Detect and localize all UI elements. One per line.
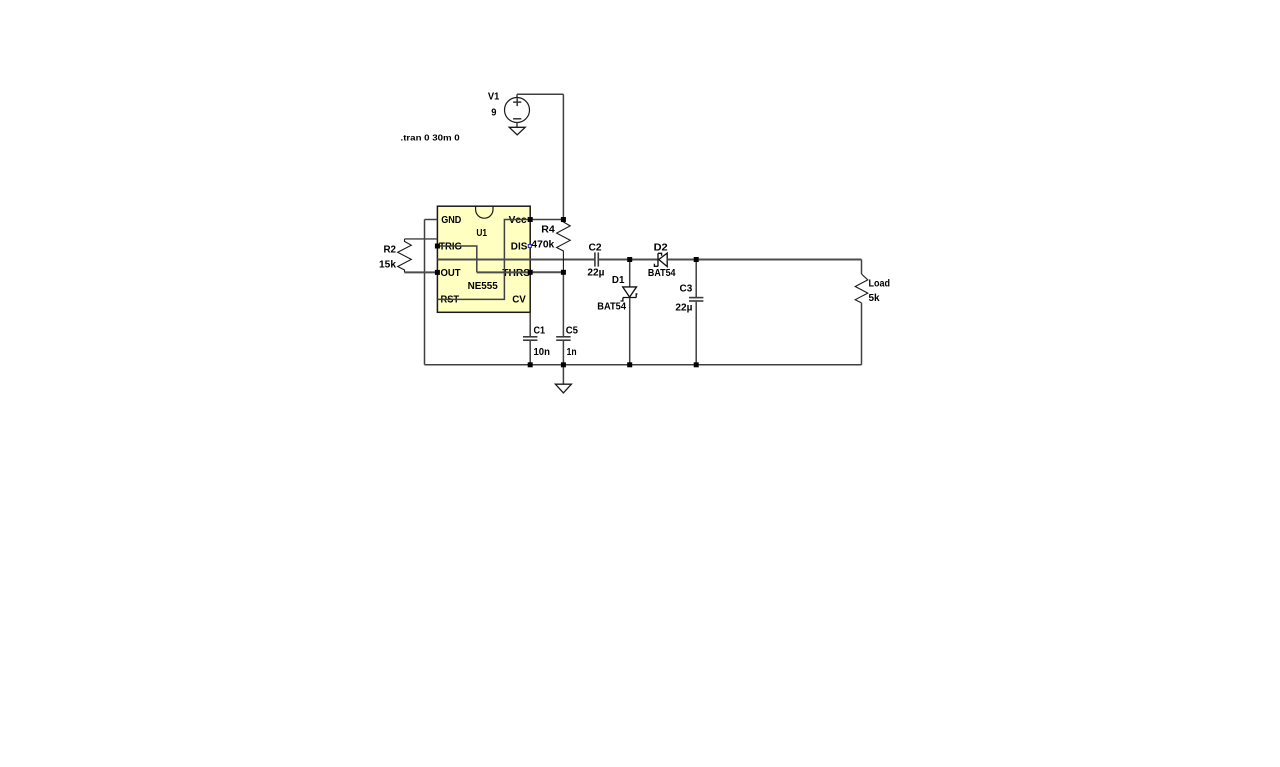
wire bottom ground rail <box>425 364 862 366</box>
resistor Load <box>855 260 868 365</box>
svg-text:NE555: NE555 <box>468 281 498 292</box>
svg-text:Vcc: Vcc <box>509 215 527 226</box>
svg-text:22µ: 22µ <box>587 268 604 279</box>
svg-text:BAT54: BAT54 <box>597 301 626 312</box>
junction D2-C3 <box>694 257 699 262</box>
svg-text:U1: U1 <box>476 228 487 239</box>
wire D1 junction to D2 cathode <box>630 259 658 261</box>
wire D junction down to D1 <box>629 260 631 288</box>
junction rail C5 <box>561 362 566 367</box>
svg-text:TRIG: TRIG <box>439 241 462 252</box>
pin square TRIG <box>435 244 440 249</box>
svg-text:GND: GND <box>441 215 462 226</box>
svg-text:C3: C3 <box>680 284 693 295</box>
wire CV column down to C1 <box>529 312 531 336</box>
pin square Vcc <box>528 217 533 222</box>
svg-text:Load: Load <box>869 278 891 289</box>
svg-text:C1: C1 <box>534 325 546 336</box>
svg-text:15k: 15k <box>379 259 396 270</box>
svg-text:C5: C5 <box>566 325 578 336</box>
capacitor C3 <box>689 298 703 365</box>
wire C3 junction to Load <box>696 259 861 261</box>
svg-text:.tran 0 30m 0: .tran 0 30m 0 <box>401 133 461 143</box>
junction C2-D1-D2 <box>627 257 632 262</box>
ground under C5 <box>555 365 571 393</box>
svg-text:10n: 10n <box>534 347 550 358</box>
wire R4/THRS junction down to C5 <box>562 272 564 336</box>
svg-text:OUT: OUT <box>441 268 462 279</box>
junction R4 top <box>561 217 566 222</box>
svg-text:22µ: 22µ <box>675 303 692 314</box>
pin square OUT <box>435 270 440 275</box>
junction rail D1 <box>627 362 632 367</box>
resistor R4 <box>557 222 571 272</box>
wire OUT net horizontal through box to C2 <box>437 259 594 261</box>
capacitor C5 <box>556 337 570 365</box>
wire left vertical down to bottom rail <box>424 220 426 365</box>
wire GND pin to left rail <box>425 219 438 221</box>
junction rail C1 <box>528 362 533 367</box>
pin square THRS <box>528 270 533 275</box>
svg-text:C2: C2 <box>589 242 602 253</box>
svg-text:BAT54: BAT54 <box>648 268 676 279</box>
DIS open pin marker <box>528 245 531 248</box>
diode D2 BAT54 <box>654 253 696 267</box>
wire C3 junction down to C3 <box>695 260 697 298</box>
wire Vcc pin to R4 top <box>530 219 563 221</box>
svg-text:V1: V1 <box>488 91 500 102</box>
svg-text:R2: R2 <box>384 244 397 255</box>
wire RST to Vcc internal <box>437 220 530 300</box>
op-amp/IC body U1 NE555 <box>437 206 530 312</box>
svg-text:R4: R4 <box>541 224 555 235</box>
svg-text:9: 9 <box>491 108 496 119</box>
wire TRIG to THRS internal <box>437 246 476 272</box>
ground under V1 <box>509 127 525 135</box>
svg-text:D1: D1 <box>612 275 625 286</box>
diode D1 BAT54 <box>621 287 638 365</box>
svg-text:5k: 5k <box>869 293 880 304</box>
svg-text:CV: CV <box>512 295 526 306</box>
wire R4 column vertical from top wire to R4 <box>562 94 564 222</box>
svg-text:D2: D2 <box>654 242 668 253</box>
voltage source V1 <box>505 94 530 127</box>
wire THRS pin to R4 bottom junction <box>530 271 563 273</box>
capacitor C1 <box>523 337 537 365</box>
capacitor C2 <box>595 252 630 266</box>
resistor R2 <box>398 239 438 273</box>
svg-text:470k: 470k <box>531 240 554 251</box>
junction THRS-R4-C5 <box>561 270 566 275</box>
wire V1 top to R4 column <box>517 93 563 95</box>
svg-text:DIS: DIS <box>511 241 528 252</box>
svg-text:1n: 1n <box>567 347 577 358</box>
junction rail C3 <box>694 362 699 367</box>
